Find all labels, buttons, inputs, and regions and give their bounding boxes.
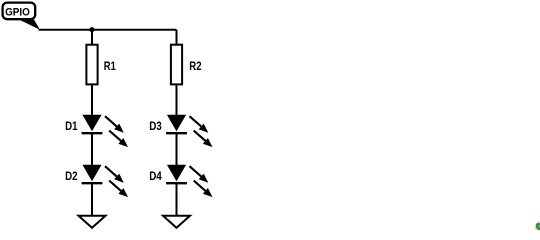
svg-text:GPIO: GPIO — [5, 7, 30, 19]
svg-text:D3: D3 — [149, 119, 162, 133]
svg-text:R1: R1 — [104, 59, 116, 73]
svg-text:D1: D1 — [65, 119, 78, 133]
svg-text:D4: D4 — [149, 169, 162, 183]
svg-text:D2: D2 — [65, 169, 78, 183]
svg-text:R2: R2 — [189, 59, 201, 73]
